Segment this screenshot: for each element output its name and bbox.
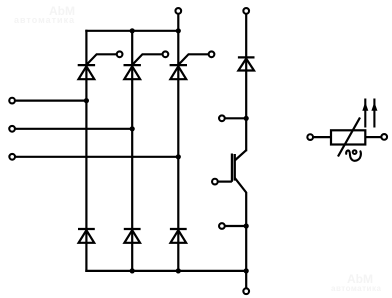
- node bus/col2 bottom: [130, 268, 135, 273]
- node emitter tap: [244, 223, 249, 228]
- terminal bottom: [243, 288, 249, 294]
- top bus: [85, 30, 178, 32]
- transistor IGBT V7: [232, 150, 246, 192]
- thermistor terminal left: [307, 134, 313, 140]
- gate terminal V3: [209, 51, 215, 57]
- node phase2/col2: [130, 126, 135, 131]
- wire IGBT gate: [218, 181, 232, 183]
- diode D4 freewheel mid column: [238, 57, 255, 70]
- thyristor V3: [170, 54, 208, 79]
- node bus/col3 bottom: [176, 268, 181, 273]
- wire column 3: [177, 14, 179, 272]
- wire phase 3: [16, 156, 179, 158]
- input terminal phase 1: [9, 98, 15, 104]
- bottom bus: [85, 270, 246, 272]
- wire phase 1: [16, 99, 87, 101]
- thermistor terminal right: [381, 134, 387, 140]
- diode D3 bottom: [170, 229, 187, 243]
- wire emitter tap: [225, 225, 246, 227]
- gate terminal V2: [163, 51, 169, 57]
- diode D2 bottom: [124, 229, 141, 243]
- wire column mid upper: [245, 14, 247, 151]
- wire column mid lower: [245, 192, 247, 288]
- thermistor R1: [314, 118, 381, 157]
- temperature arrows: [362, 99, 377, 128]
- node phase1/col1: [84, 98, 89, 103]
- node bus/colmid bottom: [244, 268, 249, 273]
- gate terminal IGBT: [212, 179, 218, 185]
- input terminal phase 3: [9, 154, 15, 160]
- emitter aux terminal: [219, 223, 225, 229]
- gate terminal V1: [117, 51, 123, 57]
- input terminal phase 2: [9, 126, 15, 132]
- thyristor V1: [78, 54, 116, 79]
- node collector tap: [244, 116, 249, 121]
- thyristor V2: [124, 54, 162, 79]
- watermark top-left: [49, 5, 75, 17]
- terminal DC+ top: [175, 8, 181, 14]
- wire column 2: [131, 31, 133, 272]
- theta symbol: [346, 150, 361, 161]
- node phase3/col3: [176, 154, 181, 159]
- wire phase 2: [16, 128, 133, 130]
- diode D1 bottom: [78, 229, 95, 243]
- node bus/col2 top: [130, 28, 135, 33]
- wire collector tap: [225, 117, 246, 119]
- terminal mid top: [243, 8, 249, 14]
- wire column 1: [85, 30, 87, 272]
- node bus/col3 top: [176, 28, 181, 33]
- collector aux terminal: [219, 115, 225, 121]
- watermark bottom-right: [347, 273, 373, 285]
